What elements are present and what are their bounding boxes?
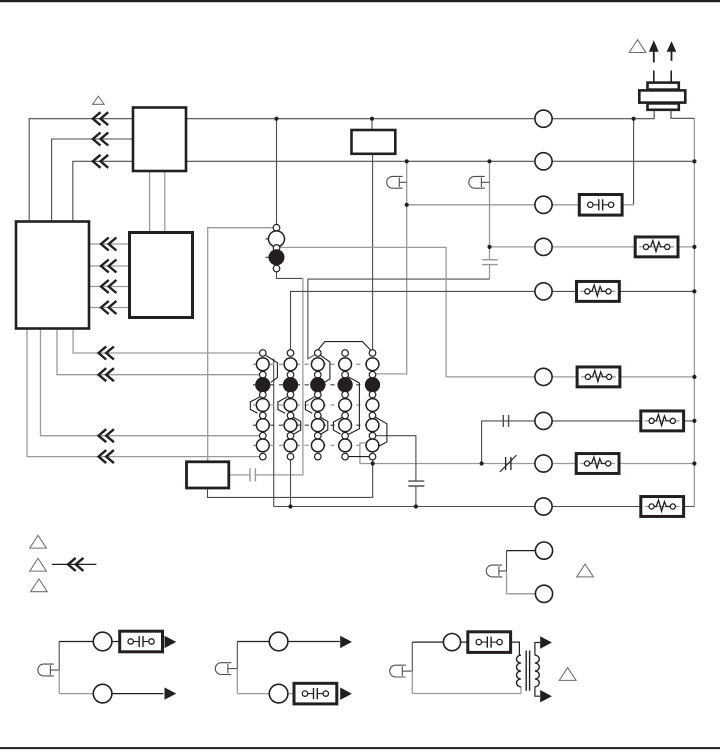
- wire unit U2 to unit U3 row c: [89, 286, 130, 288]
- chevron connector row3 at U1: [93, 155, 108, 168]
- wire unit U1 to unit U3 vertical a: [149, 171, 151, 233]
- legend circuit 1 connector top: [93, 632, 112, 651]
- legend chevron sample wire: [52, 563, 97, 565]
- legend circuit 2 connector bottom: [269, 684, 288, 703]
- wire unit U1 to unit U3 vertical b: [164, 171, 166, 233]
- switch S1 linkage dashed row L3: [253, 424, 379, 426]
- wire row1 bus from control unit U1 to antenna: [186, 118, 654, 120]
- switch S1 linkage dashed row F: [253, 384, 379, 386]
- legend circuit 1 arrow top: [165, 636, 177, 648]
- fuse F1 row4: [635, 237, 678, 257]
- wire column 5 tap to capacitor C3 and row D: [376, 436, 416, 481]
- wire unit U2 output 2 to switch column 1: [57, 329, 260, 375]
- chevron connector row1 at U1: [93, 112, 108, 125]
- stack S2 small contact bottom: [273, 265, 280, 272]
- LADDER-LAYER: [250, 224, 387, 460]
- wire stack S2 bottom contact stub: [277, 272, 303, 279]
- wire stack S2 mid contact to row A riser: [280, 247, 446, 377]
- wire relay K1 output down to switch column 5: [372, 154, 374, 350]
- transformer T1 core: [525, 651, 527, 691]
- wire column 2 bottom to row D: [290, 460, 292, 507]
- antenna arrow 2: [671, 51, 673, 61]
- wire riser x273 from ladder to row D: [273, 359, 275, 507]
- wire row1 left branch to unit U2: [29, 119, 133, 222]
- wire right vertical bus: [693, 118, 695, 506]
- legend chevron sample symbol: [68, 558, 83, 571]
- legend circuit 3 connector bottom: [535, 585, 552, 602]
- chevron connector U2 output 1: [99, 347, 114, 360]
- switch S1 wiper column1 right: [266, 356, 277, 383]
- legend circuit 1 arrow bottom: [165, 687, 177, 699]
- connector circle rowA: [535, 368, 552, 385]
- antenna arrow 1: [653, 50, 655, 63]
- page top rule: [0, 0, 720, 2]
- switch S1 wiper column4 left: [333, 418, 342, 435]
- legend circuit 4 triangle: [559, 668, 576, 681]
- legend circuit 1 lamp: [38, 664, 54, 676]
- legend circuit 1 branch wires: [58, 642, 60, 671]
- switch S1 wiper column3 lower right: [321, 418, 328, 435]
- antenna unit stack: [653, 71, 655, 83]
- WIRES-LAYER: [27, 118, 694, 506]
- legend circuit 4 capacitor box: [468, 632, 511, 653]
- fuse F5 rowC: [576, 454, 619, 474]
- connector circle row2: [535, 153, 552, 170]
- wire row3 from node at x406 to capacitor box: [407, 204, 623, 206]
- stack S2 filled pole: [269, 249, 285, 265]
- legend circuit 4 arrow bottom: [540, 690, 552, 702]
- antenna triangle marker: [629, 40, 646, 53]
- chevron connector U2 output 3: [99, 429, 114, 442]
- wire row A to fuse F3 and bus: [446, 376, 694, 378]
- transformer T1 secondary leads: [535, 643, 540, 656]
- transformer T1 secondary coil: [535, 655, 539, 687]
- wire node A vertical x276 to switch stack S2: [276, 119, 278, 225]
- antenna left leg: [653, 111, 655, 119]
- legend circuit 1 capacitor box: [120, 631, 163, 652]
- wire column 5 bottom to row C and down to box E return: [208, 460, 373, 498]
- fuse F4 rowB: [641, 411, 684, 431]
- chevron connector U2-U3 row d: [101, 301, 116, 314]
- chevron connector U2 output 2: [99, 368, 114, 381]
- wire row3 capacitor box to riser: [622, 204, 633, 206]
- feed-through capacitor C5 on row C: [505, 457, 507, 470]
- fuse F3 rowA: [577, 367, 620, 387]
- wire unit U2 to unit U3 row d: [89, 307, 130, 309]
- legend circuit 2 connector top: [269, 632, 288, 651]
- connector circle rowB: [535, 412, 552, 429]
- legend circuit 2 branch wires: [236, 642, 238, 669]
- wire capacitor C3 bottom lead to row D: [415, 486, 417, 507]
- wire unit U2 output 4 to switch column 1: [27, 329, 260, 457]
- legend circuit 3 triangle: [577, 564, 594, 577]
- legend circuit 2 lamp: [215, 663, 231, 675]
- switch S1 linkage dashed row L2: [253, 404, 379, 406]
- wire unit U2 output 1 to switch column 1: [73, 329, 260, 354]
- capacitor box row3: [579, 195, 622, 216]
- connector circle row1: [535, 110, 552, 127]
- switch S1 wiper column1 left: [250, 397, 259, 413]
- capacitor C4 plates on row B: [502, 415, 504, 427]
- chevron connector U2 output 4: [99, 450, 114, 463]
- wire row2 bus from U1 to right bus: [186, 160, 694, 162]
- connector circle row4: [535, 238, 552, 255]
- wire row B from riser to fuse F4 and bus: [482, 421, 695, 464]
- wire lamp L1 drop from row2 down to column 5 tap: [376, 161, 407, 374]
- LEGEND-LAYER: [30, 535, 594, 704]
- connector circle row3: [535, 196, 552, 213]
- switch S1 column 2 circles: [284, 350, 298, 460]
- wire row2 left branch to unit U2: [52, 139, 133, 222]
- wire C1 bottom run left and down to column 3: [308, 279, 490, 359]
- chevron connector row2 at U1: [93, 133, 108, 146]
- transformer T1 primary coil: [517, 655, 521, 687]
- legend circuit 3 lamp: [486, 565, 502, 577]
- stack S2 pole circle: [269, 231, 285, 247]
- wire row4 from C1 node to fuse and bus: [490, 246, 695, 248]
- lamp L2: [469, 176, 485, 188]
- legend triangle 2: [30, 558, 47, 571]
- wire capacitor C1 bottom lead: [489, 265, 491, 280]
- stack S2 linkage dashes: [266, 238, 288, 240]
- legend circuit 3 branch wires: [506, 551, 508, 571]
- switch S1 linkage dashed row L4: [253, 444, 379, 446]
- legend circuit 2 arrow top: [340, 636, 352, 648]
- legend triangle 3: [31, 579, 48, 592]
- page bottom rule: [0, 747, 720, 749]
- legend circuit 4 arrow top: [540, 636, 552, 648]
- capacitor C3 plates: [408, 480, 424, 482]
- unit U3 box: [130, 233, 193, 318]
- lamp L1: [387, 176, 403, 188]
- legend circuit 2 capacitor box: [294, 683, 337, 704]
- legend circuit 2 arrow bottom: [340, 688, 352, 700]
- chevron connector U2-U3 row b: [101, 260, 116, 273]
- wire gray riser x303 down to capacitor C2: [255, 278, 303, 475]
- stack S2 small contact top: [273, 224, 280, 231]
- fuse F2 row5: [577, 281, 620, 301]
- fuse F6 rowD: [641, 497, 684, 517]
- switch S1 column 5 circles: [366, 350, 380, 460]
- connector circle row5: [535, 283, 552, 300]
- capacitor C2 plates: [249, 468, 251, 481]
- switch S1 wiper column3 left: [305, 397, 314, 413]
- wire node B vertical x372 to relay K1: [371, 119, 373, 130]
- wire row3 riser to row1: [633, 119, 635, 205]
- wire row D to fuse F6 and bus bottom: [274, 506, 695, 508]
- switch S1 linkage dashed row L1: [253, 363, 379, 365]
- switch S1 column 1 circles: [256, 350, 270, 460]
- capacitor C1 plates: [482, 259, 498, 261]
- wire row C gray run to fuse F5 and bus: [360, 443, 695, 464]
- switch S1 bridge column3 to column5: [318, 342, 371, 350]
- wire lamp L2 drop from row2 to capacitor C1: [489, 161, 491, 259]
- wire row3 left branch to unit U2: [73, 161, 133, 221]
- chevron connector U2-U3 row a: [101, 238, 116, 251]
- COMPONENTS-LAYER: [16, 40, 697, 517]
- wire unit U2 to unit U3 row a: [89, 243, 130, 245]
- connector circle rowC: [535, 455, 552, 472]
- switch S1 wiper column4 long: [348, 377, 359, 435]
- legend triangle 1: [30, 535, 47, 548]
- legend circuit 1 connector bottom: [93, 684, 112, 703]
- switch S1 wiper column2 left: [278, 397, 287, 413]
- wire unit U2 output 3 to switch column 1: [41, 329, 260, 436]
- unit E box: [187, 462, 229, 488]
- connector circle rowD: [535, 498, 552, 515]
- switch S1 wiper column5 right: [376, 417, 387, 446]
- wire stack S2 top contact to box E riser: [208, 228, 274, 462]
- legend circuit 4 lamp: [390, 665, 406, 677]
- switch S1 bottom link column4-column5: [349, 456, 370, 458]
- relay K1 box: [352, 130, 396, 154]
- wire row5 from column 2 to fuse F2 and bus: [291, 291, 695, 349]
- switch S1 wiper column2 right: [294, 418, 301, 435]
- junction dots: [274, 117, 278, 121]
- triangle marker 1 near U1: [93, 96, 105, 104]
- switch S1 column 3 circles: [311, 350, 325, 460]
- chevron connector U2-U3 row c: [101, 280, 116, 293]
- legend circuit 4 connector: [443, 634, 460, 651]
- legend circuit 4 branch wires: [411, 642, 413, 671]
- switch S1 column 4 circles: [338, 350, 352, 460]
- unit U1 box: [133, 108, 186, 172]
- antenna right leg: [671, 111, 694, 119]
- stack S2 small contact mid: [273, 245, 280, 252]
- legend circuit 3 connector top: [535, 542, 552, 559]
- wire capacitor C2 to box E: [229, 474, 250, 476]
- unit U2 box: [16, 222, 89, 329]
- wire unit U2 to unit U3 row b: [89, 265, 130, 267]
- switch S1 wiper column3 right: [321, 355, 330, 383]
